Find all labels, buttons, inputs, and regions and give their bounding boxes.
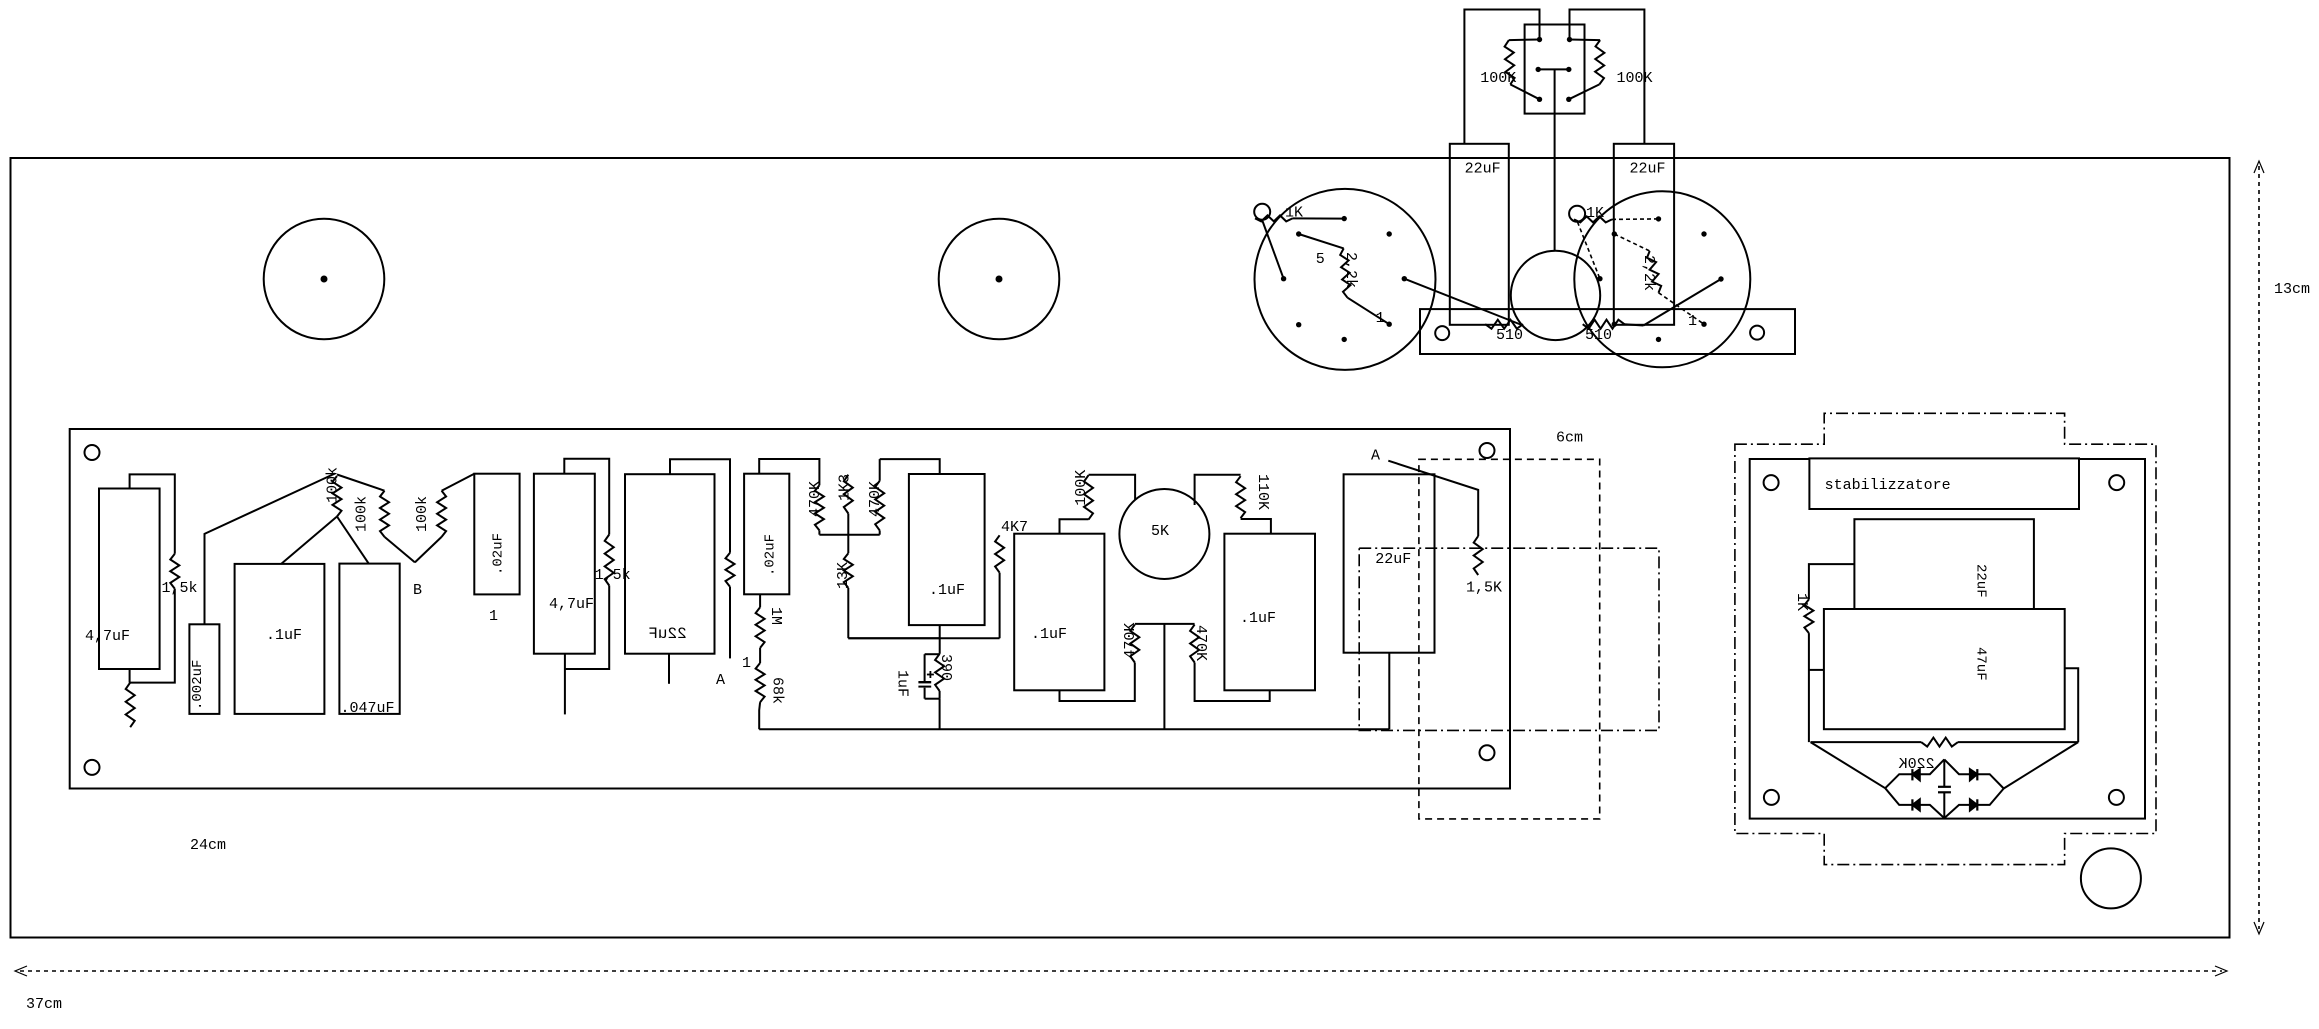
wire .1uF no.3 bottom pin xyxy=(1060,663,1135,702)
resistor 220K xyxy=(1811,741,1922,743)
svg-text:22uF: 22uF xyxy=(1375,551,1411,568)
wire from right 22uF cap top to terminal board xyxy=(1570,10,1645,144)
resistor 1,5K xyxy=(1474,536,1483,575)
svg-text:100K: 100K xyxy=(1617,70,1653,87)
wire 4,7uF no.2 bottom pin xyxy=(564,654,566,715)
capacitor .1uF no.3 xyxy=(1014,534,1104,691)
svg-text:13cm: 13cm xyxy=(2274,281,2310,298)
svg-text:100k: 100k xyxy=(354,496,371,532)
resistor 100K right xyxy=(1570,39,1601,42)
capacitor 22uF right (top) xyxy=(1614,144,1674,325)
wire rail to bridge right xyxy=(2004,742,2079,788)
capacitor .1uF no.2 (center) xyxy=(909,474,985,625)
diode D3 (bottom left) xyxy=(1911,799,1913,810)
wire V2 pin to 22uF bottom xyxy=(1643,279,1721,326)
resistor 100K left xyxy=(1509,39,1540,42)
wire center drop to chassis hole xyxy=(1554,69,1556,250)
svg-text:22uF: 22uF xyxy=(1465,161,1501,178)
wire from left 22uF cap top to terminal board xyxy=(1464,10,1539,144)
grommet hole right xyxy=(1569,206,1585,222)
wire loop 22uF no.2 to node A with inline resistor xyxy=(670,459,730,552)
potentiometer 5K circle xyxy=(1119,489,1209,579)
dimension line 13cm (right side) xyxy=(2258,166,2260,929)
wire center tap to ground bus xyxy=(1163,624,1165,729)
svg-text:1: 1 xyxy=(489,608,498,625)
svg-text:1,5k: 1,5k xyxy=(595,567,631,584)
dash-dot cross outline (stabilizzatore) xyxy=(1735,413,2156,864)
chassis hole circle bottom right xyxy=(2081,848,2141,908)
resistor 510 left xyxy=(1485,320,1523,329)
capacitor .047uF xyxy=(339,564,399,714)
svg-text:470K: 470K xyxy=(1192,625,1209,661)
terminal strip screw left xyxy=(1435,326,1449,340)
capacitor .1uF no.1 xyxy=(235,564,325,714)
svg-text:4,7uF: 4,7uF xyxy=(85,628,130,645)
wire 68k to ground bus xyxy=(758,702,761,729)
resistor 110K xyxy=(1236,476,1245,518)
svg-text:22uF: 22uF xyxy=(1973,564,1989,598)
resistor 1M xyxy=(756,607,765,648)
diode D4 (bottom right) xyxy=(1976,799,1978,810)
capacitor 1uF electrolytic xyxy=(925,653,940,655)
svg-text:22uF: 22uF xyxy=(648,625,686,643)
lug dots xyxy=(1537,37,1542,42)
dashed box 6cm xyxy=(1419,459,1600,819)
capacitor 47uF stab xyxy=(1824,609,2065,729)
svg-text:1K3: 1K3 xyxy=(837,474,854,501)
main component board (24cm) xyxy=(70,429,1510,789)
svg-text:110K: 110K xyxy=(1254,474,1271,510)
svg-text:5K: 5K xyxy=(1151,523,1169,540)
resistor 100k no.1 xyxy=(333,476,342,517)
capacitor .02uF no.1 xyxy=(474,474,519,595)
resistor 68k xyxy=(756,663,765,702)
svg-text:100K: 100K xyxy=(1073,470,1090,506)
svg-text:1M: 1M xyxy=(767,607,784,625)
capacitor .1uF no.4 xyxy=(1224,534,1315,691)
wire rail to .1uF top xyxy=(880,459,940,474)
svg-text:6cm: 6cm xyxy=(1556,430,1583,447)
svg-text:1,5K: 1,5K xyxy=(1466,580,1502,597)
chassis hole circle middle xyxy=(939,219,1060,340)
svg-text:1: 1 xyxy=(1376,310,1385,327)
svg-text:470K: 470K xyxy=(867,481,884,517)
resistor 470K c xyxy=(1130,625,1139,663)
wire 22uF stab to 1K xyxy=(1809,564,1855,599)
wire 1K stab down xyxy=(1808,633,1810,742)
capacitor in bridge center xyxy=(1943,759,1945,786)
svg-text:470K: 470K xyxy=(1122,623,1139,659)
wire stub to 47uF xyxy=(1809,669,1824,671)
svg-text:1: 1 xyxy=(1688,313,1697,330)
svg-text:5: 5 xyxy=(1316,251,1325,268)
svg-text:510: 510 xyxy=(1496,327,1523,344)
ground bus wire xyxy=(759,728,1389,730)
svg-text:stabilizzatore: stabilizzatore xyxy=(1825,477,1951,494)
diode D2 (top right) xyxy=(1976,769,1978,780)
svg-text:470K: 470K xyxy=(807,481,824,517)
terminal strip xyxy=(1420,309,1795,354)
svg-text:24cm: 24cm xyxy=(190,837,226,854)
svg-text:390: 390 xyxy=(937,654,954,681)
wire 100k junction to .047uF xyxy=(337,517,369,564)
svg-text:68k: 68k xyxy=(769,677,786,704)
svg-text:4,7uF: 4,7uF xyxy=(549,596,594,613)
wire loop .02uF no.2 to 470K xyxy=(759,459,819,485)
junction rail under 5K xyxy=(1135,623,1195,625)
svg-text:.047uF: .047uF xyxy=(341,700,395,717)
resistor 100K (driver) xyxy=(1084,475,1093,519)
dashed wire 1K to pin (V2) xyxy=(1612,218,1659,221)
svg-text:1,5k: 1,5k xyxy=(162,580,198,597)
wire 13K to 390 node xyxy=(848,637,939,639)
stabilizzatore board xyxy=(1750,459,2145,819)
svg-text:.02uF: .02uF xyxy=(491,533,507,575)
resistor 13K xyxy=(847,535,849,554)
capacitor .002uF xyxy=(189,624,219,714)
svg-text:13K: 13K xyxy=(835,562,852,589)
svg-text:47uF: 47uF xyxy=(1973,647,1989,681)
wire rail to bridge left xyxy=(1811,742,1886,788)
resistor 1K stab xyxy=(1804,599,1813,633)
wire .1uF no.2 bottom pin xyxy=(939,625,941,654)
wire 22uF no.2 bottom pin xyxy=(668,654,670,684)
tube socket V1 circle xyxy=(1255,189,1436,370)
capacitor 4,7uF no.1 xyxy=(99,489,160,670)
wire 100k junction to .1uF xyxy=(281,517,337,564)
svg-text:.1uF: .1uF xyxy=(1240,610,1276,627)
svg-text:100K: 100K xyxy=(1480,70,1516,87)
svg-text:.1uF: .1uF xyxy=(1031,626,1067,643)
resistor 4K7 xyxy=(995,535,1004,572)
svg-text:22uF: 22uF xyxy=(1630,161,1666,178)
resistor below 4,7uF no.1 xyxy=(126,683,135,728)
wire 390 to ground bus xyxy=(939,699,941,730)
grommet hole left xyxy=(1254,204,1270,220)
wire grommet to pin xyxy=(1263,221,1284,279)
terminal board (6 lugs) xyxy=(1525,25,1585,114)
svg-text:B: B xyxy=(413,582,422,599)
svg-text:.1uF: .1uF xyxy=(929,582,965,599)
resistor 470K d xyxy=(1190,625,1199,663)
terminal strip screw right xyxy=(1750,326,1764,340)
svg-text:100k: 100k xyxy=(325,467,342,503)
svg-text:.002uF: .002uF xyxy=(190,660,206,710)
resistor 390 xyxy=(935,654,944,691)
capacitor .02uF no.2 xyxy=(744,474,789,595)
chassis hole circle between tube sockets xyxy=(1511,251,1600,340)
chassis hole circle left xyxy=(264,219,385,340)
wire between middle lugs xyxy=(1538,68,1569,70)
svg-text:.02uF: .02uF xyxy=(763,534,779,576)
wire .02uF no.2 to 1M xyxy=(759,594,761,607)
svg-text:2,2k: 2,2k xyxy=(1640,255,1657,291)
wire .1uF no.3 top pin xyxy=(1060,519,1089,534)
capacitor 22uF left (top) xyxy=(1450,144,1509,325)
resistor 2,2k (V1) xyxy=(1299,234,1344,248)
svg-text:A: A xyxy=(1371,448,1380,465)
resistor 100k no.2 xyxy=(337,475,385,491)
diode bridge outline xyxy=(1885,759,1944,788)
tube socket V2 pins xyxy=(1656,216,1661,221)
diode D1 (top left) xyxy=(1911,769,1913,780)
capacitor 4,7uF no.2 xyxy=(534,474,595,654)
wire loop around 4,7uF no.1 with inline resistor xyxy=(130,474,175,682)
dashed wire grommet to pin (V2) xyxy=(1578,222,1600,279)
capacitor 22uF stab xyxy=(1854,519,2034,609)
resistor 100k no.3 xyxy=(415,537,442,563)
resistor 2,2k (V2) xyxy=(1614,234,1649,251)
capacitor 22uF no.2 (mirrored) xyxy=(625,474,715,654)
svg-text:1uF: 1uF xyxy=(894,670,911,697)
wire 47uF right down xyxy=(2065,668,2079,742)
dimension line 37cm (bottom) xyxy=(20,970,2222,972)
chassis outline (37cm x 13cm plate) xyxy=(11,158,2230,938)
svg-text:1K: 1K xyxy=(1285,205,1303,222)
capacitor 22uF no.3 xyxy=(1344,474,1435,652)
wire 470K a to junction xyxy=(818,530,820,534)
stabilizzatore label box xyxy=(1809,458,2079,509)
tube socket V2 circle xyxy=(1574,191,1750,367)
svg-text:2,2k: 2,2k xyxy=(1342,252,1359,288)
svg-text:A: A xyxy=(716,672,725,689)
wire loop around 4,7uF no.2 with inline resistor xyxy=(564,459,609,535)
tube socket V1 pins xyxy=(1342,216,1347,221)
wire 22uF no.3 to ground bus xyxy=(1388,653,1390,730)
wire V1 pin to 510 resistor xyxy=(1404,279,1523,326)
wire .002uF to 100k junction xyxy=(205,474,336,625)
resistor 470K b xyxy=(879,459,881,481)
svg-text:.1uF: .1uF xyxy=(266,627,302,644)
svg-text:1K: 1K xyxy=(1793,593,1810,611)
svg-text:510: 510 xyxy=(1585,327,1612,344)
board screw holes xyxy=(85,445,100,460)
resistor 510 right xyxy=(1583,320,1625,329)
svg-text:100k: 100k xyxy=(414,496,431,532)
junction rail xyxy=(819,534,879,536)
resistor 470K a xyxy=(815,485,824,530)
wire node A to 1,5K xyxy=(1388,461,1478,536)
svg-text:37cm: 37cm xyxy=(26,996,62,1013)
resistor 1K3 xyxy=(844,475,853,514)
dash-dot box lower xyxy=(1359,548,1659,730)
plus sign of 1uF xyxy=(927,674,934,676)
resistor 1K (V1) xyxy=(1255,215,1293,221)
stabilizzatore screw holes xyxy=(1764,475,1779,490)
resistor 1K (V2) xyxy=(1574,216,1612,222)
wire 1M to 68k xyxy=(759,648,761,663)
svg-text:1: 1 xyxy=(742,655,751,672)
